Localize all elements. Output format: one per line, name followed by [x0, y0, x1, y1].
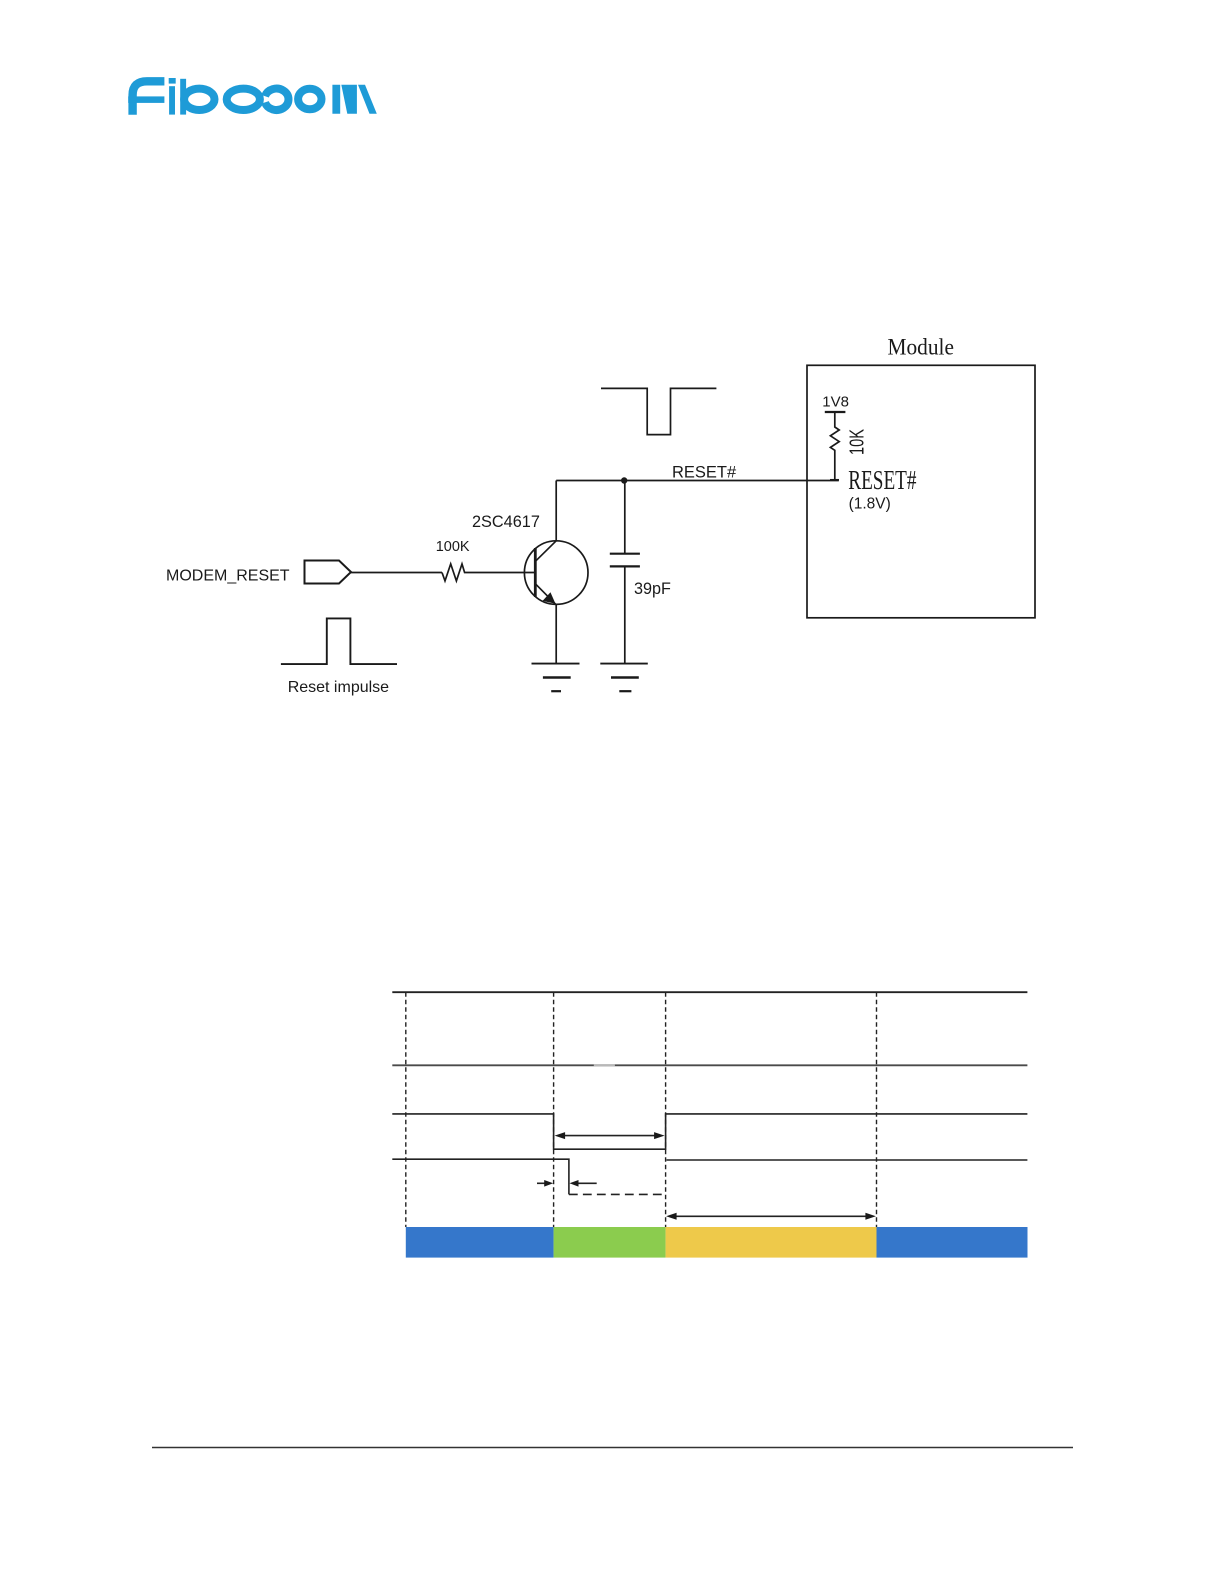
svg-text:MODEM_RESET: MODEM_RESET [166, 568, 290, 585]
svg-text:1V8: 1V8 [822, 394, 849, 411]
svg-text:100K: 100K [436, 539, 470, 555]
svg-text:(1.8V): (1.8V) [849, 496, 891, 513]
svg-text:2SC4617: 2SC4617 [472, 513, 540, 531]
svg-text:10K: 10K [845, 429, 868, 455]
svg-text:Reset impulse: Reset impulse [288, 679, 389, 696]
svg-text:Module: Module [888, 334, 955, 360]
svg-text:39pF: 39pF [634, 580, 671, 598]
svg-text:RESET#: RESET# [672, 464, 737, 482]
svg-text:RESET#: RESET# [848, 466, 916, 496]
